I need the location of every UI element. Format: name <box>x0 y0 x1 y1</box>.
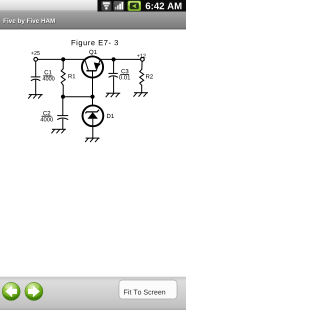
D1 zener triangle (anode) <box>88 112 98 119</box>
D1 internal lead <box>92 119 94 126</box>
wire C1 drop lower <box>35 80 37 94</box>
label R2 <box>146 74 153 78</box>
status bar black icon area <box>98 0 187 12</box>
node base-right junction <box>90 95 94 99</box>
wire Q1 base <box>92 71 94 97</box>
terminal +12 <box>141 57 145 61</box>
ground under C3 <box>106 93 121 97</box>
wire R1 drop lower <box>62 85 64 97</box>
wire R1 drop upper <box>62 59 64 68</box>
wire R2 drop upper <box>141 61 143 69</box>
label C3 fraction bar <box>120 74 129 76</box>
wire base node horizontal <box>63 96 92 98</box>
label Q1 <box>89 50 96 55</box>
button prev (green circle left arrow) <box>2 282 20 300</box>
label C1 value 4000 <box>43 77 55 81</box>
ground under C2 <box>51 129 66 133</box>
status time <box>146 3 182 10</box>
wire C1 drop upper <box>35 61 37 76</box>
Q1 collector lead <box>85 60 89 71</box>
label C2 value 4000 <box>40 117 53 121</box>
button next (green circle right arrow) <box>25 282 43 300</box>
wire R2 drop lower <box>141 85 143 92</box>
capacitor C2 <box>57 116 68 120</box>
wire D1 top <box>92 97 94 106</box>
button Fit To Screen <box>119 280 177 299</box>
wire C3 drop lower <box>113 77 115 93</box>
ground under R2 <box>134 93 149 97</box>
status bar light area <box>0 0 186 12</box>
label C3 value 0.01 <box>119 75 130 79</box>
wire top rail left: +25 terminal to Q1 <box>38 58 85 60</box>
label D1 <box>107 114 114 118</box>
Q1 emitter lead <box>96 60 100 71</box>
figure caption <box>72 40 118 47</box>
label C1 <box>45 70 52 74</box>
label R1 <box>68 74 75 78</box>
node base-left junction <box>61 95 65 99</box>
ground under D1 <box>85 138 100 142</box>
status icon signal tile <box>113 1 124 11</box>
bottom toolbar <box>0 276 186 310</box>
D1 zener cathode bar <box>85 110 99 114</box>
Q1 base bar <box>86 70 96 72</box>
label C2 <box>43 111 50 115</box>
label C1 fraction bar <box>43 75 52 77</box>
resistor R2 <box>140 69 144 85</box>
wire top rail right: Q1 to +12 terminal <box>100 58 140 60</box>
label C2 fraction bar <box>42 115 52 117</box>
status icon battery tile <box>128 1 141 11</box>
diode D1 (zener) <box>83 105 114 126</box>
label C3 <box>121 69 128 73</box>
wire C3 drop upper <box>113 59 115 73</box>
label +12 <box>137 54 146 58</box>
wire C2 drop upper <box>62 97 64 116</box>
title bar <box>0 12 186 29</box>
resistor R1 <box>61 69 65 86</box>
node C3 top junction <box>112 57 116 61</box>
wire C2 drop lower <box>62 119 64 129</box>
node R1 top junction <box>61 57 65 61</box>
label +25 <box>31 51 40 55</box>
capacitor C1 <box>31 77 41 81</box>
terminal +25 <box>34 57 38 61</box>
capacitor C3 <box>108 73 117 77</box>
Q1 emitter arrow <box>94 62 101 69</box>
transistor Q1 <box>82 50 103 78</box>
ground under C1 <box>28 95 43 99</box>
wire D1 bottom to ground <box>92 126 94 138</box>
status icon wifi tile <box>101 1 111 11</box>
content background <box>0 0 186 310</box>
